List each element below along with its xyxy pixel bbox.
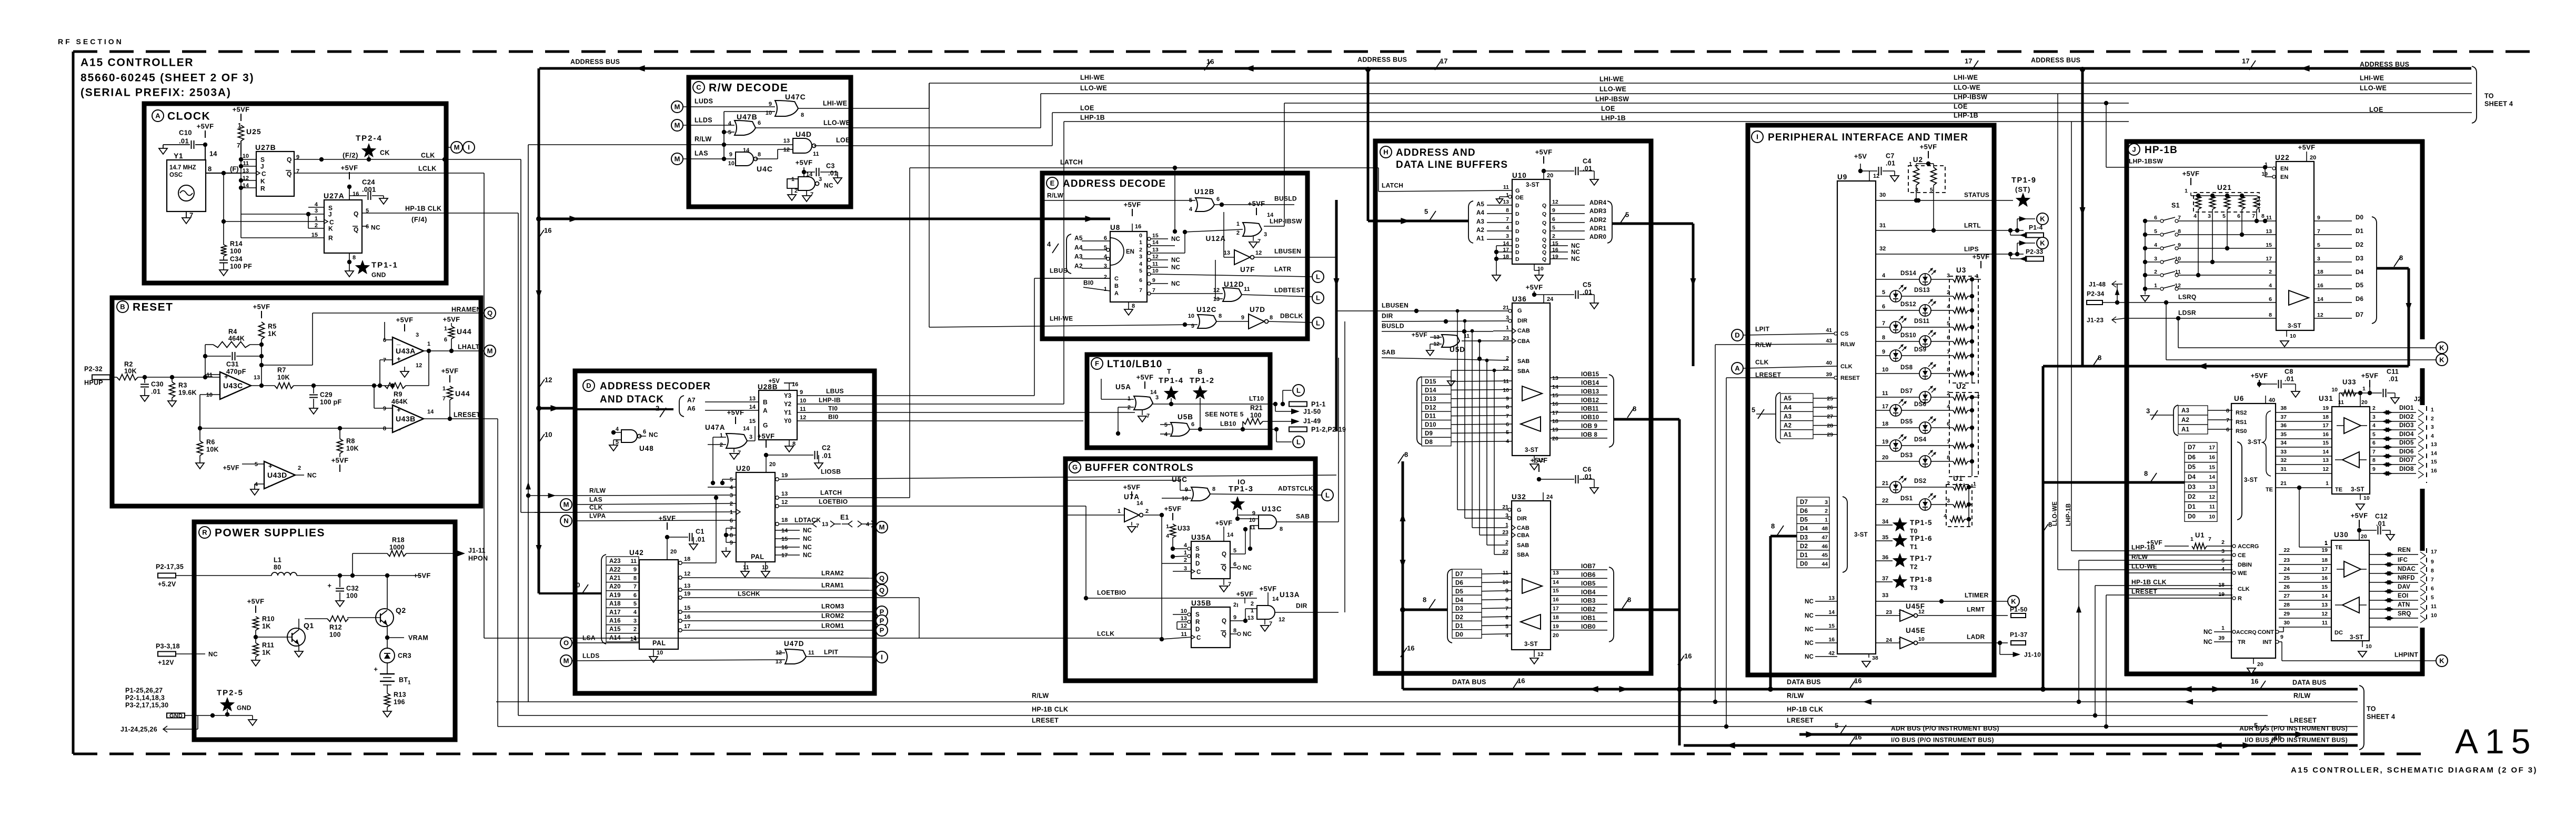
svg-text:45: 45 — [1822, 552, 1828, 559]
U31 gnd pin10 — [2356, 494, 2370, 510]
svg-text:U5B: U5B — [1178, 413, 1193, 421]
svg-text:1: 1 — [444, 326, 447, 332]
svg-text:D0: D0 — [1800, 561, 1808, 568]
svg-text:T0: T0 — [1910, 527, 1918, 534]
svg-text:5: 5 — [255, 461, 258, 468]
svg-text:D12: D12 — [1425, 405, 1436, 411]
svg-text:10: 10 — [657, 650, 663, 656]
svg-text:U12D: U12D — [1224, 280, 1244, 288]
svg-text:Q: Q — [1222, 551, 1226, 558]
svg-text:Q1: Q1 — [304, 621, 314, 630]
capacitor C2 — [766, 445, 831, 469]
svg-text:U47C: U47C — [785, 93, 806, 101]
svg-text:BI0: BI0 — [828, 413, 839, 420]
svg-text:20: 20 — [2361, 533, 2367, 540]
svg-text:23: 23 — [2283, 557, 2290, 563]
svg-text:2: 2 — [1145, 508, 1149, 515]
svg-text:5: 5 — [1189, 197, 1192, 204]
svg-text:10: 10 — [1882, 367, 1888, 373]
svg-text:RESET: RESET — [133, 301, 174, 314]
svg-text:_: _ — [268, 479, 273, 487]
svg-text:J: J — [2132, 146, 2136, 154]
svg-text:LOE: LOE — [2369, 106, 2383, 114]
wire LHALT — [424, 344, 484, 354]
svg-text:LBUSEN: LBUSEN — [1274, 247, 1301, 255]
address bus arrow left — [636, 65, 645, 72]
U32 buffer triangles — [1521, 579, 1542, 629]
svg-text:U1: U1 — [1953, 475, 1963, 482]
svg-text:4: 4 — [1047, 240, 1051, 248]
U9 pin30 STATUS — [1876, 191, 2013, 203]
svg-text:S: S — [1195, 546, 1200, 552]
capacitor C30 — [140, 375, 164, 401]
svg-text:10: 10 — [545, 431, 552, 439]
svg-text:40: 40 — [2269, 397, 2275, 404]
wire R/LW up to I — [1713, 345, 1731, 704]
switch S1 row 1 — [2143, 283, 2276, 291]
svg-text:10: 10 — [1152, 268, 1159, 274]
svg-text:19: 19 — [684, 591, 690, 597]
svg-text:D5: D5 — [2188, 465, 2196, 471]
svg-text:Q: Q — [354, 210, 358, 217]
wire SAB out G — [1276, 512, 1339, 522]
bracket TO SHEET 4 top — [2472, 66, 2513, 123]
svg-text:14: 14 — [209, 150, 217, 158]
svg-text:R8: R8 — [346, 438, 355, 445]
svg-text:D10: D10 — [1425, 422, 1436, 428]
U22 gnd pin10 — [2280, 330, 2296, 347]
svg-text:6: 6 — [2431, 586, 2434, 592]
U36 control bubbles — [1508, 309, 1516, 344]
svg-text:1: 1 — [427, 341, 430, 347]
svg-text:D13: D13 — [1425, 396, 1436, 402]
svg-text:17: 17 — [1965, 57, 1972, 65]
svg-text:D14: D14 — [1425, 388, 1436, 394]
svg-text:NC: NC — [1805, 627, 1814, 633]
U8 power pin16 — [1124, 201, 1142, 231]
svg-text:ADDRESS AND: ADDRESS AND — [1396, 147, 1476, 158]
svg-text:U2: U2 — [1913, 156, 1923, 164]
label LHP-1B 2 — [1601, 115, 1626, 122]
svg-text:P2-17,35: P2-17,35 — [156, 563, 184, 571]
svg-text:D1: D1 — [1800, 552, 1808, 559]
svg-text:6: 6 — [2372, 440, 2376, 446]
U30 buffers — [2335, 561, 2367, 613]
svg-text:10: 10 — [1918, 636, 1925, 642]
svg-text:34: 34 — [2280, 440, 2287, 446]
svg-text:7: 7 — [1136, 523, 1139, 529]
svg-text:9: 9 — [730, 540, 733, 546]
svg-text:470pF: 470pF — [226, 368, 246, 376]
svg-text:DIO6: DIO6 — [2399, 449, 2414, 455]
svg-text:I/O BUS (P/O INSTRUMENT BUS): I/O BUS (P/O INSTRUMENT BUS) — [2245, 736, 2348, 743]
svg-text:13: 13 — [749, 396, 756, 402]
svg-text:_: _ — [396, 338, 401, 346]
svg-text:5: 5 — [1552, 225, 1555, 231]
svg-text:1: 1 — [1976, 273, 1979, 279]
svg-text:39: 39 — [1826, 371, 1832, 378]
svg-text:16: 16 — [544, 227, 551, 235]
or-gate U47B — [728, 113, 761, 136]
svg-text:LCLK: LCLK — [418, 165, 437, 173]
svg-text:14.7 MHZ: 14.7 MHZ — [169, 165, 196, 171]
wire CLK out — [294, 152, 454, 162]
svg-text:CLOCK: CLOCK — [167, 110, 210, 123]
connector J1-23 — [2087, 316, 2125, 324]
circled K LTIMER — [2008, 596, 2019, 607]
svg-text:U10: U10 — [1512, 172, 1527, 179]
ic U22 — [2275, 154, 2314, 330]
svg-text:29: 29 — [1827, 432, 1833, 438]
svg-text:CAB: CAB — [1517, 328, 1530, 334]
svg-text:8: 8 — [1771, 522, 1775, 530]
svg-text:ADR4: ADR4 — [1589, 200, 1607, 206]
U22 pin rows — [2266, 215, 2323, 318]
svg-text:43: 43 — [1826, 338, 1832, 344]
LED DS6 row — [1876, 399, 1972, 416]
svg-text:+12V: +12V — [158, 659, 174, 667]
svg-text:A1: A1 — [1784, 432, 1792, 438]
wire LCLK out — [294, 165, 484, 174]
svg-text:11: 11 — [800, 406, 806, 412]
bus rail LHP-IBSW — [1284, 103, 2129, 104]
svg-text:16: 16 — [1828, 637, 1835, 643]
svg-text:13: 13 — [1152, 247, 1159, 253]
svg-text:12: 12 — [1213, 287, 1220, 294]
svg-text:28: 28 — [2283, 602, 2290, 608]
or-gate U12C — [1188, 306, 1249, 329]
gate U5D — [1412, 331, 1512, 356]
wire U27A Q-bar NC — [362, 224, 380, 231]
U27B pin numbers — [243, 153, 299, 189]
svg-text:30: 30 — [2283, 620, 2290, 626]
svg-text:Q: Q — [1542, 228, 1546, 235]
svg-text:A20: A20 — [609, 584, 621, 590]
wire LRAM2 — [682, 569, 876, 578]
svg-text:D: D — [1515, 220, 1520, 226]
svg-text:6: 6 — [730, 518, 733, 524]
svg-text:23: 23 — [1886, 609, 1892, 616]
svg-text:4: 4 — [1164, 431, 1168, 438]
svg-text:Q: Q — [1542, 211, 1546, 217]
svg-text:7: 7 — [1506, 413, 1509, 419]
ic U36 — [1512, 295, 1550, 456]
U20 out LIOSB — [776, 468, 1336, 481]
svg-text:LOE: LOE — [836, 137, 850, 144]
wire LOE out — [814, 137, 854, 146]
svg-text:LHP-1B: LHP-1B — [1080, 114, 1105, 122]
svg-text:M: M — [563, 501, 569, 509]
section label G — [1069, 461, 1194, 473]
svg-text:5: 5 — [728, 129, 731, 136]
svg-text:SBA: SBA — [1517, 368, 1529, 375]
svg-text:7: 7 — [237, 142, 240, 149]
svg-text:IOB0: IOB0 — [1581, 624, 1596, 630]
wire U8 pin14 up — [1151, 229, 1177, 246]
label LRESET b3 — [2290, 717, 2317, 724]
gate U4 bottom with C3 — [787, 159, 842, 201]
U32 8-bus right — [1614, 596, 1679, 610]
arrows IO BUS — [1726, 742, 2252, 749]
svg-text:IOB11: IOB11 — [1581, 406, 1599, 412]
title 85660-60245 (SHEET 2 OF 3) — [80, 72, 254, 84]
svg-text:LHI-WE: LHI-WE — [1954, 74, 1978, 82]
svg-text:3: 3 — [2146, 407, 2150, 415]
circled L ADTSTCLK — [1322, 489, 1333, 501]
svg-text:A4: A4 — [1074, 244, 1083, 251]
svg-text:D7: D7 — [1800, 499, 1808, 506]
svg-text:4: 4 — [730, 485, 733, 491]
label HP-1B CLK b2 — [1787, 706, 1823, 713]
wire LHPINT — [2278, 642, 2436, 661]
svg-text:4: 4 — [728, 120, 732, 127]
U6 CONT INT — [2258, 627, 2283, 646]
svg-text:P2-1,14,18,3: P2-1,14,18,3 — [125, 694, 165, 702]
svg-text:PERIPHERAL INTERFACE AND TIMER: PERIPHERAL INTERFACE AND TIMER — [1768, 132, 1968, 143]
svg-text:25: 25 — [1827, 396, 1833, 402]
capacitor C11 — [2383, 368, 2400, 404]
svg-text:3: 3 — [1947, 273, 1950, 279]
wire DBCLK out — [1268, 312, 1312, 322]
svg-text:10: 10 — [728, 160, 734, 167]
svg-text:(SERIAL PREFIX: 2503A): (SERIAL PREFIX: 2503A) — [80, 87, 232, 99]
svg-text:U5C: U5C — [1172, 476, 1188, 483]
vertical junction wires C — [722, 112, 771, 161]
resistor R6 — [196, 439, 219, 469]
svg-text:46: 46 — [1822, 543, 1828, 550]
op-amp U43C — [200, 372, 260, 441]
svg-text:1: 1 — [1506, 325, 1509, 331]
wire LSA — [560, 634, 639, 649]
U9 pin33 LTIMER — [1876, 591, 2008, 603]
svg-text:100: 100 — [329, 631, 341, 639]
wire LHP-IBSW into J — [2104, 101, 2272, 167]
svg-text:2: 2 — [2269, 269, 2272, 275]
svg-text:CLK: CLK — [1755, 358, 1769, 366]
svg-text:17: 17 — [2209, 445, 2215, 451]
U31 buffers — [2335, 418, 2367, 468]
svg-text:38: 38 — [1872, 655, 1878, 661]
svg-text:10: 10 — [2175, 256, 2181, 262]
svg-text:+5VF: +5VF — [1248, 200, 1265, 208]
svg-text:DIO5: DIO5 — [2399, 440, 2414, 446]
LED DS13 row — [1876, 285, 1972, 302]
svg-text:33: 33 — [2280, 449, 2287, 455]
svg-text:1: 1 — [2326, 480, 2329, 487]
svg-text:R13: R13 — [394, 691, 406, 699]
svg-text:1: 1 — [1118, 508, 1121, 515]
svg-text:LHP-1BSW: LHP-1BSW — [2129, 157, 2163, 165]
svg-text:ACCRQ: ACCRQ — [2236, 629, 2257, 636]
svg-text:U32: U32 — [1512, 493, 1526, 501]
svg-text:11: 11 — [1503, 184, 1509, 190]
svg-text:C32: C32 — [346, 585, 359, 592]
svg-text:TP1-7: TP1-7 — [1910, 554, 1933, 562]
svg-text:6: 6 — [1882, 304, 1885, 310]
svg-text:9: 9 — [2431, 559, 2434, 565]
svg-text:17: 17 — [1882, 404, 1888, 410]
svg-text:TP1-8: TP1-8 — [1910, 576, 1933, 583]
svg-text:16: 16 — [1854, 733, 1861, 741]
svg-text:12: 12 — [1255, 250, 1262, 256]
svg-text:D0: D0 — [2188, 514, 2196, 520]
svg-text:K: K — [2011, 598, 2016, 606]
inverter U45E — [1876, 627, 1926, 649]
svg-text:NC: NC — [803, 552, 812, 559]
wire LOETBIO G — [1084, 506, 1257, 600]
svg-text:R14: R14 — [230, 240, 243, 248]
svg-text:U12B: U12B — [1194, 188, 1215, 196]
svg-text:12: 12 — [416, 362, 422, 369]
svg-text:38: 38 — [2280, 405, 2287, 411]
svg-text:GND: GND — [237, 704, 251, 711]
circled Q HRAMEN — [484, 307, 496, 319]
resistor R10 — [247, 598, 275, 643]
svg-text:C6: C6 — [1583, 466, 1592, 473]
svg-text:9: 9 — [1191, 323, 1194, 329]
wires U27B inputs — [224, 156, 256, 190]
U10 NC outputs — [1550, 243, 1580, 263]
LED DS12 row — [1876, 299, 1972, 316]
bus A7 A6 entry — [575, 396, 759, 417]
wire U8 pin13 to U12A — [1151, 229, 1243, 253]
svg-text:0: 0 — [1139, 233, 1142, 239]
svg-text:U4D: U4D — [796, 130, 812, 138]
svg-text:M: M — [879, 523, 885, 531]
wire vertical 16 right of H — [1677, 610, 1692, 745]
svg-text:G: G — [763, 421, 768, 429]
svg-text:IOB5: IOB5 — [1581, 581, 1596, 587]
circled M LUDS — [671, 101, 683, 113]
U20 clock marker — [736, 509, 740, 515]
svg-text:2: 2 — [1236, 230, 1240, 236]
svg-text:16: 16 — [792, 381, 798, 388]
svg-text:5: 5 — [730, 477, 733, 483]
flip-flop U27A — [324, 191, 362, 253]
svg-text:NC: NC — [1243, 565, 1252, 571]
svg-text:U21: U21 — [2217, 184, 2232, 191]
U22 D outputs — [2314, 215, 2377, 324]
svg-text:9: 9 — [1185, 487, 1188, 493]
svg-text:A3: A3 — [2181, 408, 2189, 414]
svg-text:+5VF: +5VF — [331, 457, 349, 465]
svg-text:3-ST: 3-ST — [2244, 477, 2258, 483]
switch S1 row 3 — [2143, 256, 2276, 264]
resistor R14 — [221, 221, 243, 256]
svg-text:Q: Q — [487, 309, 492, 317]
DIO labels lower — [2378, 440, 2416, 476]
svg-text:CLK: CLK — [421, 152, 435, 159]
svg-text:1: 1 — [315, 216, 318, 222]
svg-text:6: 6 — [2154, 215, 2157, 221]
svg-text:I: I — [468, 144, 470, 152]
svg-text:LRESET: LRESET — [1032, 717, 1059, 724]
svg-text:19: 19 — [781, 472, 788, 479]
section box G — [1065, 459, 1315, 681]
wire R/LW up to J — [2076, 560, 2232, 704]
svg-text:5: 5 — [1505, 623, 1508, 630]
svg-text:10K: 10K — [124, 368, 137, 375]
svg-text:B: B — [120, 303, 125, 311]
svg-text:16: 16 — [1553, 597, 1559, 603]
connector P1-37 — [2010, 631, 2028, 645]
svg-text:10: 10 — [1188, 313, 1194, 319]
svg-text:15: 15 — [2322, 440, 2329, 446]
svg-text:GND: GND — [371, 271, 386, 278]
label LHP-1B 1 — [1080, 114, 1105, 122]
svg-text:3: 3 — [2208, 213, 2211, 219]
resistor pack U2 top — [1908, 143, 1945, 233]
svg-text:10: 10 — [762, 564, 768, 571]
svg-text:U5A: U5A — [1115, 383, 1131, 391]
LED DS10 row — [1876, 330, 1972, 347]
svg-text:K: K — [328, 225, 333, 232]
svg-text:7: 7 — [1139, 287, 1142, 294]
svg-text:RS0: RS0 — [2236, 428, 2247, 435]
label LOE 4 — [2369, 106, 2383, 114]
svg-text:C: C — [1196, 635, 1201, 641]
svg-text:13: 13 — [254, 375, 260, 381]
U6 power pin40 — [2251, 368, 2300, 404]
svg-text:3: 3 — [315, 208, 318, 214]
title A15 CONTROLLER — [80, 57, 194, 69]
svg-text:1: 1 — [1909, 161, 1912, 167]
U32 pin numbers — [1502, 504, 1559, 639]
svg-text:GND: GND — [169, 713, 183, 719]
connector P2-32 HPUP — [84, 366, 117, 387]
test point TP1-7 — [1876, 553, 1933, 570]
svg-text:16: 16 — [2322, 431, 2329, 438]
oscillator Y1 — [167, 152, 206, 211]
LED DS5 row — [1876, 416, 1972, 433]
test point TP1-3 — [1229, 478, 1254, 521]
circled K LSRQ — [2436, 354, 2448, 366]
svg-text:+: + — [268, 462, 273, 470]
wire LUDS — [683, 98, 775, 107]
svg-text:A5: A5 — [1074, 234, 1083, 241]
svg-text:20: 20 — [2257, 661, 2263, 668]
wire LAS — [683, 150, 736, 159]
svg-text:1: 1 — [720, 432, 723, 439]
svg-text:NC: NC — [1805, 640, 1814, 647]
svg-text:9: 9 — [2317, 215, 2320, 221]
U31 TE row — [2266, 480, 2332, 547]
svg-text:12: 12 — [1537, 651, 1544, 658]
svg-text:.01: .01 — [2285, 376, 2294, 383]
svg-text:ADR2: ADR2 — [1589, 217, 1606, 224]
svg-text:1K: 1K — [268, 330, 277, 338]
U42 address inputs — [606, 557, 639, 642]
svg-text:TP1-5: TP1-5 — [1910, 519, 1933, 527]
svg-text:S: S — [260, 156, 265, 163]
svg-text:3-ST: 3-ST — [2350, 634, 2363, 641]
svg-text:1: 1 — [791, 176, 794, 183]
svg-text:D6: D6 — [1800, 508, 1808, 515]
circled K LHPINT — [2436, 655, 2448, 667]
svg-text:3-ST: 3-ST — [1854, 532, 1868, 538]
svg-text:U4C: U4C — [757, 165, 773, 173]
U35B pins — [1181, 590, 1254, 638]
J2 numbers right — [2420, 549, 2437, 623]
svg-text:LLDS: LLDS — [582, 652, 600, 659]
circled M LLDS — [671, 119, 683, 131]
ground at Y1 pin7 — [182, 211, 193, 224]
svg-text:16: 16 — [2274, 733, 2281, 741]
svg-text:15: 15 — [684, 605, 690, 611]
svg-text:5: 5 — [1752, 406, 1755, 414]
svg-text:A19: A19 — [609, 592, 621, 599]
svg-text:LHP-IBSW: LHP-IBSW — [1954, 94, 1987, 101]
